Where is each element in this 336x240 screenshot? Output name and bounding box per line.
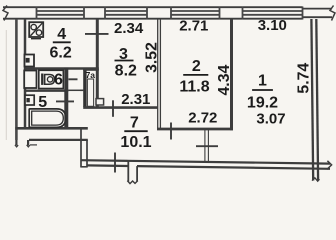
stove symbol (kitchen) (29, 22, 43, 39)
svg-text:6.2: 6.2 (49, 45, 71, 62)
door tick: room2 (170, 123, 172, 140)
wall: corridor bottom lower line left of doorway (87, 164, 128, 167)
door tick: entrance (114, 153, 116, 173)
wall break: top-left zigzag (3, 6, 8, 21)
svg-text:11.8: 11.8 (179, 79, 209, 96)
wall: WC / bath partition (26, 89, 68, 91)
bath vent box (25, 95, 34, 105)
svg-text:7: 7 (130, 114, 139, 131)
wall stub: WC/bath line continuation to closet (68, 89, 84, 91)
window W1 (room 1) hatch (243, 7, 303, 20)
svg-text:2: 2 (192, 58, 201, 75)
svg-text:3.07: 3.07 (256, 111, 285, 128)
wall: room3 bottom (83, 106, 158, 109)
wall: corridor left bar (outlined) (80, 128, 82, 167)
toilet bowl (45, 75, 55, 85)
bathtub (29, 109, 66, 127)
label line 3 (115, 60, 134, 62)
svg-text:19.2: 19.2 (247, 95, 278, 112)
WC vent box (24, 71, 36, 89)
toilet tank (41, 74, 43, 85)
label line 2 (183, 74, 208, 76)
label line 1 (252, 89, 273, 91)
wall: corridor+room1 bottom, upper line (continuous) (81, 160, 330, 163)
door tick: room3 (112, 100, 114, 117)
door tick: bath (56, 100, 74, 102)
kitchen vent box (25, 55, 35, 67)
closet 7a inner outline (87, 79, 93, 106)
wall: left exterior inner line (24, 19, 27, 128)
entrance doorway legs with break mark (127, 161, 129, 182)
svg-text:8.2: 8.2 (115, 62, 137, 79)
wall: room2 bottom (157, 128, 233, 131)
dash near closet (80, 89, 84, 91)
svg-text:4.34: 4.34 (216, 65, 233, 96)
bathtub inner rim (32, 111, 64, 125)
svg-text:2.72: 2.72 (188, 109, 217, 126)
svg-text:3.10: 3.10 (258, 17, 287, 34)
wall: bottom lower line right of doorway (137, 166, 330, 169)
svg-text:1: 1 (258, 73, 267, 90)
svg-text:2.71: 2.71 (179, 17, 208, 34)
wall: left exterior outer line (15, 19, 18, 140)
svg-text:7a: 7a (86, 70, 96, 80)
window W2 (room 2) hatch (171, 7, 220, 20)
svg-text:4: 4 (57, 26, 66, 43)
svg-text:5.74: 5.74 (295, 63, 312, 94)
wall: kitchen / room3 partition (96, 19, 99, 108)
wall: top right solid section (303, 9, 333, 18)
wall: corridor / room1 partition (double thin) (204, 130, 206, 163)
closet small box right (96, 99, 104, 105)
door tick: WC (69, 78, 78, 80)
wall: bathroom bottom band lower line (29, 139, 88, 141)
svg-text:10.1: 10.1 (120, 134, 151, 151)
toilet bowl circle (47, 77, 52, 82)
wall break: right wall bottom zigzag (312, 178, 320, 181)
dash right of leg2 (30, 144, 37, 146)
wall break: bottom wall right arrow (327, 161, 332, 170)
window W4 (kitchen) hatch (37, 7, 85, 20)
wall: WC+bath right partition (64, 68, 68, 128)
wall: closet 7a left (thick) (83, 69, 86, 107)
wall legs below bathroom with break marks (15, 140, 17, 146)
wall: right exterior (double line, slight slant) (311, 19, 313, 181)
wall: top exterior band outer lines (3, 7, 303, 19)
svg-text:5: 5 (38, 94, 47, 111)
label line 4 (53, 41, 71, 43)
svg-text:2.34: 2.34 (114, 20, 144, 37)
window W3 (room 3) hatch (105, 7, 147, 20)
door tick: kitchen-room3 (85, 33, 109, 35)
wall: kitchen bottom (kitchen/WC) (26, 67, 99, 70)
wall break: top-right zigzag (330, 6, 335, 21)
door tick: room1 (196, 145, 218, 147)
toilet box (39, 70, 64, 88)
svg-text:2.31: 2.31 (121, 91, 150, 108)
faint scan line left edge (5, 30, 7, 140)
wall: bathroom bottom band top line (15, 127, 88, 130)
label line 7 (124, 130, 147, 132)
wall: room3 / room2 partition (double line) (157, 19, 159, 130)
svg-text:3.52: 3.52 (144, 42, 161, 73)
wall: closet 7a top (83, 69, 99, 71)
svg-text:6: 6 (54, 71, 63, 88)
wall: room2 / room1 partition (230, 19, 233, 130)
